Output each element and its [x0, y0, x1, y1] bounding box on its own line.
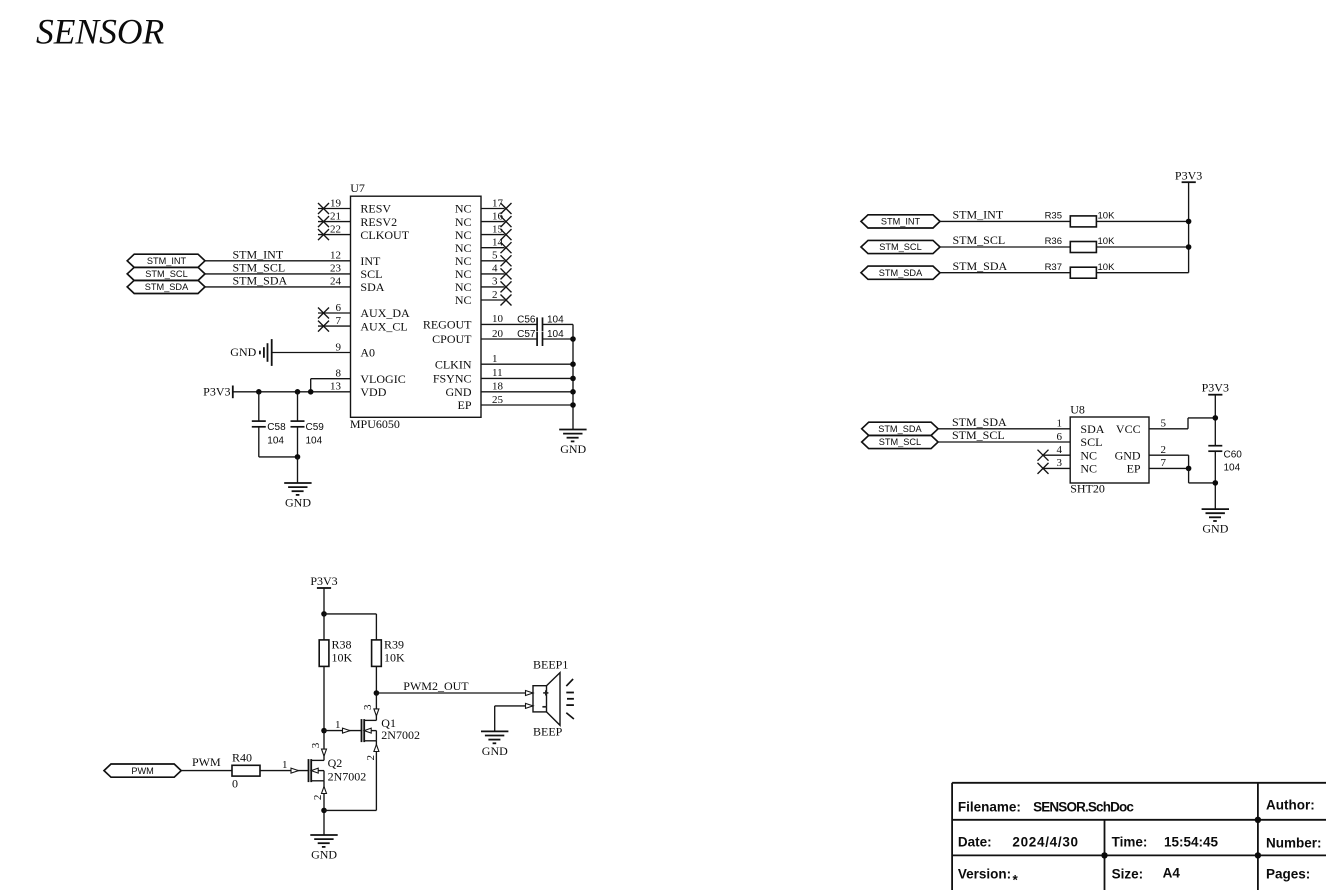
- svg-text:10K: 10K: [1098, 211, 1116, 222]
- svg-text:STM_INT: STM_INT: [147, 256, 187, 266]
- transistor Q1 2N7002: [362, 704, 420, 742]
- pin 2 GND: [1115, 444, 1189, 468]
- wire across to R39: [324, 614, 376, 640]
- resistor R38: [319, 638, 352, 667]
- pin 6 SCL: [938, 431, 1102, 449]
- wire Q1 gate: [324, 719, 362, 733]
- pin 17 NC: [455, 197, 512, 215]
- pin 4 NC: [455, 263, 512, 281]
- capacitor C59: [291, 392, 325, 457]
- svg-text:R35: R35: [1045, 211, 1062, 222]
- svg-text:R39: R39: [384, 638, 404, 652]
- svg-text:14: 14: [492, 237, 504, 249]
- IC U8 body: [1070, 417, 1149, 483]
- pin 2 NC: [455, 289, 512, 307]
- svg-text:STM_INT: STM_INT: [953, 208, 1004, 222]
- wire Q2 source to ground: [312, 781, 326, 835]
- ground GND below C60: [1202, 509, 1229, 535]
- junction EP/GND2: [1186, 466, 1192, 472]
- svg-text:PWM: PWM: [131, 766, 153, 776]
- svg-text:10K: 10K: [1098, 236, 1116, 247]
- svg-text:3: 3: [492, 276, 498, 288]
- svg-text:MPU6050: MPU6050: [350, 417, 400, 431]
- svg-text:20: 20: [492, 328, 504, 340]
- svg-text:GND: GND: [230, 345, 256, 359]
- svg-text:Author:: Author:: [1266, 798, 1315, 813]
- ground GND below C59: [284, 483, 311, 509]
- svg-text:GND: GND: [482, 744, 508, 758]
- svg-text:5: 5: [492, 250, 498, 262]
- port STM_INT (right): [861, 215, 940, 228]
- svg-text:GND: GND: [285, 495, 311, 509]
- wire port to R35: [940, 220, 1070, 222]
- svg-text:4: 4: [492, 263, 498, 275]
- svg-text:NC: NC: [455, 215, 472, 229]
- pin 22 CLKOUT: [318, 223, 410, 241]
- svg-text:SDA: SDA: [360, 280, 384, 294]
- svg-text:C56: C56: [517, 314, 536, 325]
- svg-text:10K: 10K: [1098, 262, 1116, 273]
- svg-text:NC: NC: [455, 267, 472, 281]
- version row: [958, 865, 1310, 887]
- resistor R39: [372, 638, 405, 667]
- svg-text:24: 24: [330, 276, 342, 288]
- pin 9 A0: [272, 341, 375, 359]
- resistor R37: [1045, 262, 1116, 278]
- pin 20 CPOUT: [432, 328, 537, 346]
- pin 19 RESV: [318, 197, 391, 215]
- svg-text:1: 1: [282, 759, 288, 771]
- svg-text:15:54:45: 15:54:45: [1164, 835, 1219, 850]
- svg-text:7: 7: [336, 315, 342, 327]
- filename row: [958, 798, 1315, 815]
- svg-text:NC: NC: [455, 293, 472, 307]
- svg-text:STM_INT: STM_INT: [881, 217, 921, 227]
- svg-text:5: 5: [1161, 418, 1167, 430]
- svg-text:STM_SCL: STM_SCL: [879, 437, 921, 447]
- svg-text:U7: U7: [350, 181, 365, 195]
- svg-text:U8: U8: [1070, 402, 1085, 416]
- pin 16 NC: [455, 210, 512, 228]
- svg-text:PWM2_OUT: PWM2_OUT: [403, 679, 469, 693]
- pin 5 NC: [455, 250, 512, 268]
- pin 15 NC: [455, 223, 512, 241]
- junction Q1 gate tap: [321, 728, 327, 734]
- svg-text:2N7002: 2N7002: [328, 769, 367, 783]
- resistor R40: [232, 751, 260, 791]
- speaker pin - wire: [495, 703, 533, 731]
- svg-text:R37: R37: [1045, 262, 1062, 273]
- wire R35 to P3V3: [1096, 220, 1188, 222]
- IC U7 body: [351, 196, 482, 417]
- svg-text:21: 21: [330, 210, 341, 222]
- wire port to R36: [940, 246, 1070, 248]
- svg-text:SCL: SCL: [1080, 435, 1102, 449]
- pin 18 GND: [446, 381, 574, 399]
- wire R36 to P3V3: [1096, 246, 1188, 248]
- pin 12 INT: [205, 250, 381, 268]
- wire PWM2_OUT to speaker: [376, 692, 533, 694]
- wire R40 to Q2 gate: [260, 759, 309, 773]
- svg-text:INT: INT: [360, 254, 381, 268]
- pin 24 SDA: [205, 276, 385, 294]
- svg-text:25: 25: [492, 394, 504, 406]
- junction R35: [1186, 219, 1192, 225]
- date row: [958, 835, 1322, 851]
- power port P3V3 at VDD: [203, 384, 233, 398]
- svg-text:1: 1: [335, 719, 341, 731]
- capacitor C60: [1208, 446, 1242, 474]
- wire R38 to Q2 drain: [323, 666, 325, 760]
- port STM_SCL (U8): [862, 435, 938, 448]
- wire P3V3 bus: [1188, 182, 1190, 273]
- wire to R38: [323, 614, 325, 640]
- svg-text:C57: C57: [517, 329, 536, 340]
- port PWM: [104, 764, 181, 777]
- svg-text:C58: C58: [267, 422, 286, 433]
- svg-text:P3V3: P3V3: [1175, 168, 1202, 182]
- svg-text:18: 18: [492, 381, 504, 393]
- wire port to R40: [181, 770, 232, 772]
- svg-text:FSYNC: FSYNC: [433, 372, 472, 386]
- capacitor C58: [252, 392, 286, 457]
- svg-text:SENSOR: SENSOR: [36, 12, 165, 52]
- port STM_SDA: [127, 280, 205, 293]
- svg-text:R36: R36: [1045, 236, 1062, 247]
- power port P3V3 (pull-ups): [1175, 168, 1202, 182]
- junction C59 bottom: [295, 454, 301, 460]
- svg-text:NC: NC: [455, 228, 472, 242]
- ground GND at speaker: [481, 731, 508, 757]
- svg-text:C59: C59: [306, 422, 325, 433]
- pin 7 EP: [1127, 457, 1189, 475]
- svg-text:A0: A0: [360, 346, 375, 360]
- svg-text:11: 11: [492, 367, 503, 379]
- svg-text:1: 1: [1057, 418, 1063, 430]
- pin 14 NC: [455, 237, 512, 255]
- svg-text:REGOUT: REGOUT: [423, 318, 472, 332]
- svg-text:STM_SDA: STM_SDA: [953, 259, 1008, 273]
- svg-text:CLKIN: CLKIN: [435, 357, 472, 371]
- svg-text:10: 10: [492, 313, 504, 325]
- pin 23 SCL: [205, 263, 382, 281]
- transistor Q2 2N7002: [309, 742, 367, 783]
- svg-text:Filename:: Filename:: [958, 800, 1021, 815]
- port STM_SDA (right): [861, 266, 940, 279]
- svg-text:GND: GND: [560, 442, 586, 456]
- svg-text:STM_SCL: STM_SCL: [233, 261, 286, 275]
- pin 11 FSYNC: [433, 367, 573, 385]
- power port P3V3 (U8): [1202, 381, 1229, 395]
- svg-text:GND: GND: [1202, 521, 1228, 535]
- svg-text:Date:: Date:: [958, 835, 992, 850]
- wire R39 to PWM2_OUT node: [375, 666, 377, 693]
- junction VCC/P3V3: [1213, 415, 1219, 421]
- svg-text:STM_SCL: STM_SCL: [879, 242, 921, 252]
- svg-text:STM_SDA: STM_SDA: [878, 424, 922, 434]
- pin 5 VCC: [1116, 418, 1215, 436]
- svg-text:SENSOR.SchDoc: SENSOR.SchDoc: [1033, 800, 1134, 815]
- title block junction dots: [1255, 817, 1261, 823]
- svg-text:12: 12: [330, 250, 341, 262]
- svg-text:BEEP: BEEP: [533, 725, 563, 739]
- wire C58 to C59 bottom: [259, 456, 298, 458]
- svg-text:VDD: VDD: [360, 385, 386, 399]
- pin 1 CLKIN: [435, 353, 573, 371]
- svg-text:9: 9: [336, 341, 342, 353]
- pin 7 AUX_CL: [318, 315, 408, 333]
- svg-text:STM_SDA: STM_SDA: [145, 282, 189, 292]
- wire P3V3 to C60: [1214, 395, 1216, 446]
- pin 3 NC: [1038, 457, 1098, 475]
- pin 3 NC: [455, 276, 512, 294]
- svg-text:VCC: VCC: [1116, 422, 1141, 436]
- resistor R36: [1045, 236, 1116, 252]
- svg-text:3: 3: [310, 742, 322, 748]
- svg-text:STM_SCL: STM_SCL: [145, 269, 187, 279]
- svg-text:17: 17: [492, 197, 504, 209]
- svg-text:RESV: RESV: [360, 202, 391, 216]
- svg-text:Pages:: Pages:: [1266, 867, 1310, 882]
- svg-text:STM_INT: STM_INT: [233, 247, 284, 261]
- junction ground bus: [1213, 480, 1219, 486]
- junction VDD/VLOGIC: [308, 389, 314, 395]
- svg-text:23: 23: [330, 263, 342, 275]
- svg-text:NC: NC: [455, 241, 472, 255]
- wire Q2 source to Q1 source: [324, 809, 376, 811]
- svg-text:*: *: [1013, 873, 1019, 888]
- wire C60 to ground: [1214, 451, 1216, 509]
- junction VDD/C59: [295, 389, 301, 395]
- svg-text:2: 2: [1161, 444, 1167, 456]
- pin 4 NC: [1038, 444, 1098, 462]
- title block frame: [952, 783, 1326, 890]
- wire Q1 drain: [375, 693, 377, 720]
- svg-text:2: 2: [312, 795, 324, 801]
- ground GND right of U7: [559, 430, 586, 457]
- svg-text:3: 3: [1057, 457, 1063, 469]
- port STM_INT: [127, 254, 205, 267]
- svg-text:15: 15: [492, 223, 504, 235]
- svg-text:4: 4: [1057, 444, 1063, 456]
- pin 10 REGOUT: [423, 313, 537, 331]
- svg-text:AUX_DA: AUX_DA: [360, 306, 410, 320]
- svg-text:R40: R40: [232, 751, 252, 765]
- junction FSYNC: [570, 376, 576, 382]
- speaker pin +: [526, 690, 534, 695]
- speaker BEEP1: [533, 657, 568, 738]
- ground bus wire: [572, 324, 574, 429]
- svg-text:P3V3: P3V3: [203, 384, 230, 398]
- svg-text:SDA: SDA: [1080, 422, 1104, 436]
- svg-text:104: 104: [267, 435, 284, 446]
- svg-text:1: 1: [492, 353, 498, 365]
- svg-text:NC: NC: [455, 280, 472, 294]
- svg-text:GND: GND: [1115, 448, 1141, 462]
- junction EP: [570, 402, 576, 408]
- wire Q1 source: [365, 741, 379, 811]
- wire to ground: [297, 457, 299, 483]
- junction VDD/C58: [256, 389, 262, 395]
- svg-text:AUX_CL: AUX_CL: [360, 319, 407, 333]
- svg-text:104: 104: [1224, 463, 1241, 474]
- wire port to R37: [940, 272, 1070, 274]
- svg-text:EP: EP: [1127, 462, 1141, 476]
- pin 6 AUX_DA: [318, 302, 410, 320]
- svg-text:16: 16: [492, 210, 504, 222]
- svg-text:2024/4/30: 2024/4/30: [1012, 835, 1078, 850]
- svg-text:7: 7: [1161, 457, 1167, 469]
- svg-text:10K: 10K: [332, 651, 353, 665]
- svg-text:Size:: Size:: [1112, 867, 1144, 882]
- svg-text:SHT20: SHT20: [1070, 482, 1105, 496]
- svg-text:6: 6: [1057, 431, 1063, 443]
- junction R36: [1186, 244, 1192, 250]
- svg-text:STM_SDA: STM_SDA: [879, 268, 923, 278]
- svg-text:STM_SCL: STM_SCL: [953, 233, 1006, 247]
- power port GND at A0: [230, 339, 271, 366]
- power port P3V3 (buzzer): [310, 574, 337, 588]
- capacitor C57: [517, 329, 573, 346]
- svg-text:STM_SDA: STM_SDA: [952, 415, 1007, 429]
- svg-text:P3V3: P3V3: [310, 574, 337, 588]
- svg-text:GND: GND: [311, 847, 337, 861]
- svg-text:PWM: PWM: [192, 755, 221, 769]
- svg-text:C60: C60: [1224, 450, 1243, 461]
- junction CPOUT: [570, 336, 576, 342]
- svg-text:3: 3: [362, 704, 374, 710]
- svg-text:NC: NC: [1080, 448, 1097, 462]
- port STM_SCL (right): [861, 240, 940, 253]
- svg-text:CLKOUT: CLKOUT: [360, 228, 409, 242]
- pin 1 SDA: [938, 418, 1105, 436]
- svg-text:10K: 10K: [384, 651, 405, 665]
- svg-text:NC: NC: [455, 202, 472, 216]
- svg-text:NC: NC: [455, 254, 472, 268]
- svg-text:A4: A4: [1163, 865, 1181, 880]
- wire EP to ground bus: [1189, 468, 1216, 483]
- speaker sound waves: [566, 679, 574, 719]
- pin 13 VDD: [233, 381, 387, 399]
- pin 25 EP: [457, 394, 573, 412]
- svg-text:104: 104: [306, 435, 323, 446]
- svg-text:Number:: Number:: [1266, 835, 1322, 850]
- svg-text:19: 19: [330, 197, 342, 209]
- capacitor C56: [517, 314, 573, 331]
- pin 21 RESV2: [318, 210, 397, 228]
- svg-text:RESV2: RESV2: [360, 215, 397, 229]
- svg-text:GND: GND: [446, 385, 472, 399]
- junction P3V3 split: [321, 611, 327, 617]
- svg-text:R38: R38: [332, 638, 352, 652]
- junction GND18: [570, 389, 576, 395]
- port STM_SCL: [127, 267, 205, 280]
- pin 8 VLOGIC: [311, 368, 406, 392]
- svg-text:P3V3: P3V3: [1202, 381, 1229, 395]
- svg-text:STM_SDA: STM_SDA: [233, 274, 288, 288]
- resistor R35: [1045, 211, 1116, 227]
- wire P3V3 down: [323, 588, 325, 614]
- svg-text:Q2: Q2: [328, 756, 343, 770]
- svg-text:VLOGIC: VLOGIC: [360, 372, 405, 386]
- svg-text:NC: NC: [1080, 462, 1097, 476]
- port STM_SDA (U8): [862, 422, 938, 435]
- junction source node: [321, 808, 327, 814]
- svg-text:STM_SCL: STM_SCL: [952, 428, 1005, 442]
- wire R37 to P3V3: [1096, 272, 1188, 274]
- svg-text:Time:: Time:: [1112, 835, 1148, 850]
- svg-text:EP: EP: [457, 398, 471, 412]
- junction PWM2_OUT: [374, 690, 380, 696]
- svg-text:2N7002: 2N7002: [381, 728, 420, 742]
- svg-text:SCL: SCL: [360, 267, 382, 281]
- svg-text:Version:: Version:: [958, 867, 1011, 882]
- svg-text:13: 13: [330, 381, 342, 393]
- svg-text:6: 6: [336, 302, 342, 314]
- svg-text:2: 2: [492, 289, 498, 301]
- svg-text:8: 8: [336, 368, 342, 380]
- svg-text:CPOUT: CPOUT: [432, 332, 472, 346]
- ground GND below Q2: [310, 835, 337, 861]
- svg-text:BEEP1: BEEP1: [533, 657, 568, 671]
- junction CLKIN: [570, 361, 576, 367]
- svg-text:0: 0: [232, 777, 238, 791]
- svg-text:22: 22: [330, 223, 341, 235]
- svg-text:2: 2: [365, 755, 377, 761]
